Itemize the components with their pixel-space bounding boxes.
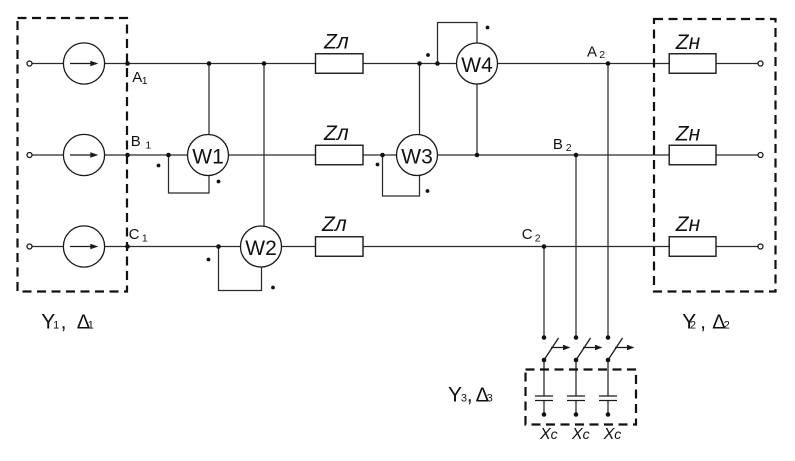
svg-text:Zл: Zл [321, 213, 347, 236]
svg-text:W2: W2 [245, 237, 277, 260]
svg-text:Xc: Xc [603, 426, 622, 443]
svg-text:Xc: Xc [571, 426, 590, 443]
svg-text:2: 2 [724, 319, 730, 331]
svg-text:3: 3 [461, 393, 467, 405]
svg-text:2: 2 [599, 49, 605, 61]
svg-text:,: , [700, 310, 706, 333]
svg-text:Xc: Xc [539, 426, 558, 443]
svg-text:Zл: Zл [323, 122, 349, 145]
svg-text:W4: W4 [461, 54, 493, 77]
svg-text:2: 2 [535, 232, 541, 244]
svg-text:Zн: Zн [675, 31, 701, 54]
svg-text:,: , [61, 311, 67, 334]
svg-text:1: 1 [142, 232, 148, 244]
svg-text:A: A [587, 44, 597, 61]
svg-text:1: 1 [142, 75, 148, 87]
svg-text:B: B [553, 136, 563, 153]
svg-text:3: 3 [487, 393, 493, 405]
svg-text:2: 2 [566, 142, 572, 154]
svg-text:1: 1 [145, 139, 151, 151]
svg-text:Zл: Zл [323, 30, 349, 53]
svg-text:C: C [129, 226, 140, 243]
svg-text:W1: W1 [192, 145, 224, 168]
svg-text:1: 1 [88, 320, 94, 332]
svg-text:2: 2 [690, 319, 696, 331]
svg-text:,: , [467, 384, 473, 407]
svg-text:1: 1 [53, 320, 59, 332]
svg-text:Zн: Zн [675, 213, 701, 236]
svg-text:B: B [131, 133, 141, 150]
svg-text:W3: W3 [401, 145, 433, 168]
svg-text:C: C [522, 226, 533, 243]
svg-text:Zн: Zн [675, 122, 701, 145]
